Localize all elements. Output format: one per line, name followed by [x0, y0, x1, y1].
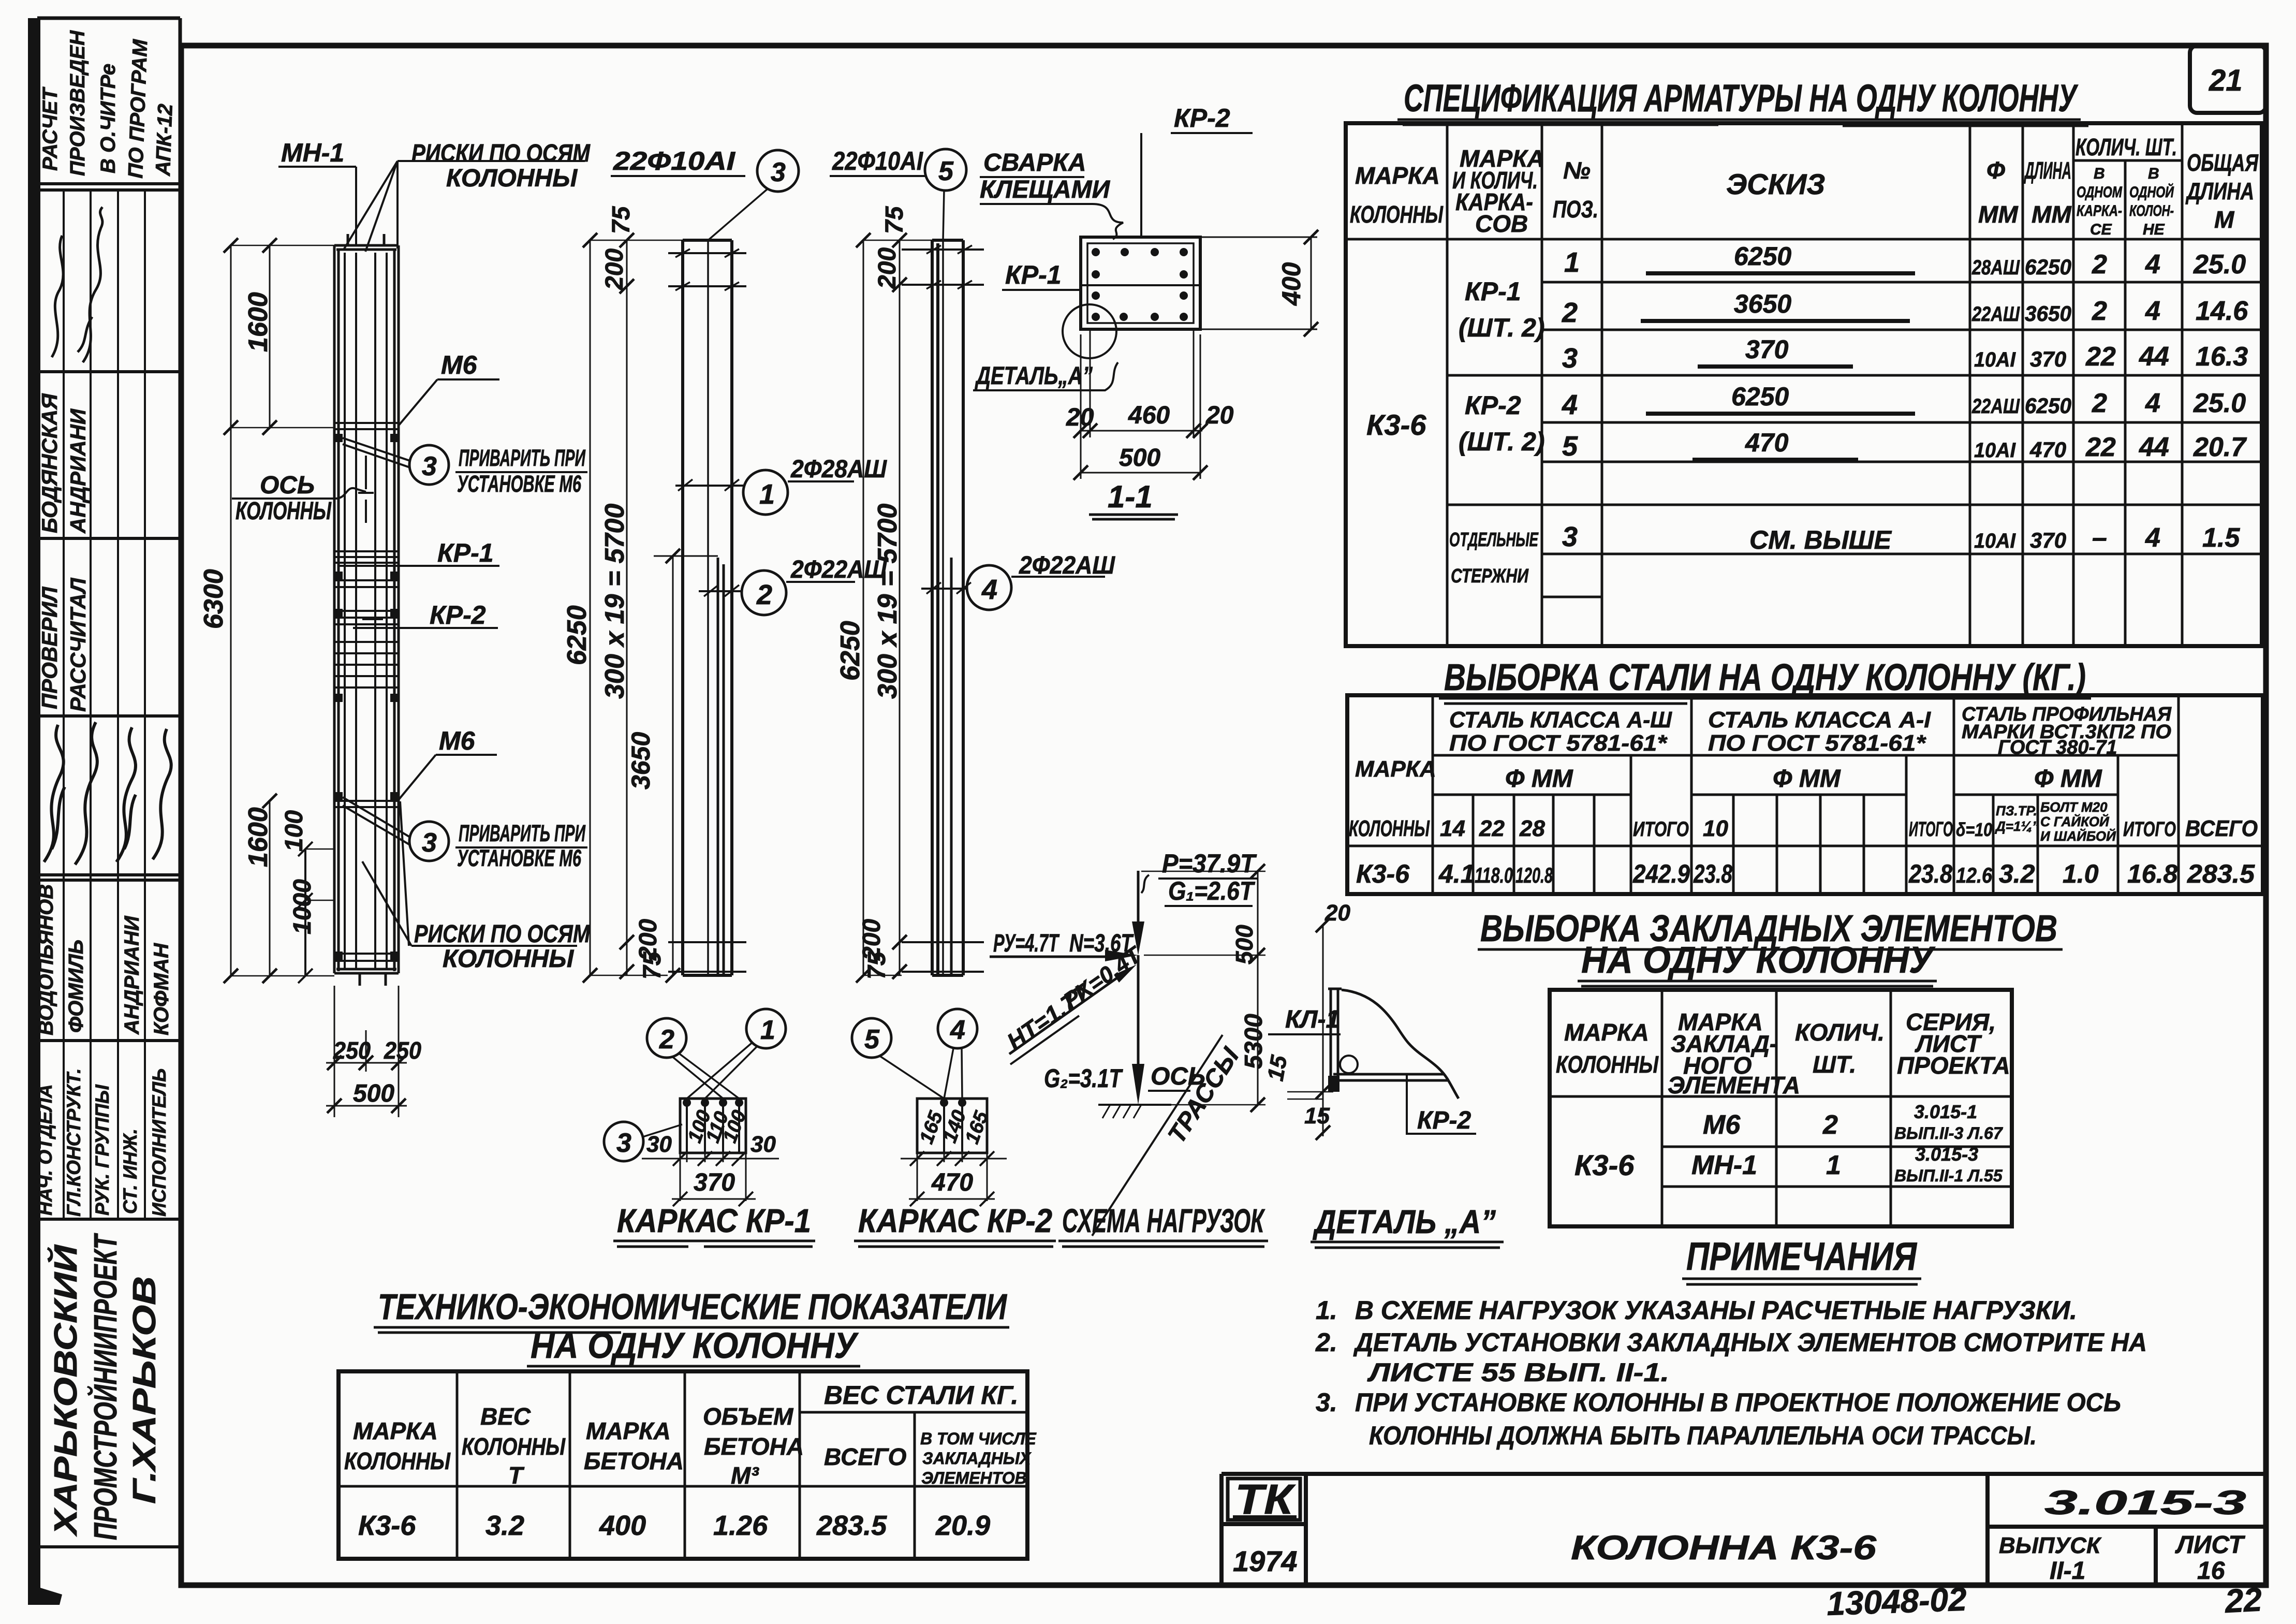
steel table grid	[1347, 695, 2263, 894]
svg-text:ДЕТАЛЬ УСТАНОВКИ ЗАКЛАДНЫХ ЭЛЕ: ДЕТАЛЬ УСТАНОВКИ ЗАКЛАДНЫХ ЭЛЕМЕНТОВ СМО…	[1353, 1328, 2147, 1357]
svg-text:283.5: 283.5	[2187, 859, 2255, 888]
kr1 2ф22 inner bars	[718, 558, 724, 975]
svg-text:КОЛОННЫ ДОЛЖНА БЫТЬ ПАРАЛЛЕЛЬН: КОЛОННЫ ДОЛЖНА БЫТЬ ПАРАЛЛЕЛЬНА ОСИ ТРАС…	[1369, 1421, 2037, 1450]
Ру N labels with horizontal arrow	[990, 930, 1138, 961]
section title 1-1	[1089, 479, 1178, 519]
kr2 frame bars	[932, 240, 963, 975]
svg-text:РУ=4.7Т: РУ=4.7Т	[993, 930, 1059, 957]
svg-text:РУК. ГРУППЫ: РУК. ГРУППЫ	[92, 1084, 113, 1216]
svg-text:3.2: 3.2	[1999, 859, 2035, 888]
rotated: проверил рассчитал	[37, 577, 90, 712]
svg-text:4: 4	[1562, 389, 1578, 420]
rotated names row	[35, 884, 173, 1035]
svg-text:1-1: 1-1	[1108, 479, 1153, 514]
dim line 1600 bottom	[262, 794, 277, 983]
svg-text:22Ф10АI: 22Ф10АI	[832, 147, 923, 175]
svg-text:СЕ: СЕ	[2090, 221, 2112, 238]
shelf double line	[1333, 1074, 1448, 1080]
svg-text:РИСКИ ПО ОСЯМ: РИСКИ ПО ОСЯМ	[411, 140, 591, 167]
svg-text:СТЕРЖНИ: СТЕРЖНИ	[1451, 565, 1529, 587]
svg-text:ОСЬ: ОСЬ	[260, 472, 315, 499]
pos circles 2 1 3 for kr1 plan	[604, 1009, 786, 1161]
svg-text:ПРОВЕРИЛ: ПРОВЕРИЛ	[37, 587, 62, 709]
svg-text:ПРОЕКТА: ПРОЕКТА	[1897, 1052, 2010, 1079]
svg-text:ГОСТ 380-71: ГОСТ 380-71	[1998, 737, 2117, 758]
svg-text:ЭЛЕМЕНТА: ЭЛЕМЕНТА	[1668, 1072, 1800, 1099]
svg-text:2: 2	[1822, 1110, 1838, 1140]
svg-text:КАРКАС КР-2: КАРКАС КР-2	[858, 1202, 1052, 1239]
page number box	[2190, 46, 2266, 113]
svg-text:20.9: 20.9	[935, 1510, 990, 1541]
svg-text:М³: М³	[731, 1462, 759, 1489]
console curved outline	[1342, 990, 1459, 1099]
rotated institute name	[47, 1233, 163, 1540]
svg-text:ВОДОПЬЯНОВ: ВОДОПЬЯНОВ	[35, 884, 57, 1035]
svg-text:ПРОМСТРОЙНИИПРОЕКТ: ПРОМСТРОЙНИИПРОЕКТ	[87, 1233, 124, 1540]
svg-text:4: 4	[2145, 523, 2160, 553]
svg-text:1.: 1.	[1316, 1296, 1337, 1325]
svg-text:II-1: II-1	[2050, 1557, 2085, 1585]
dim ext lines	[1287, 1092, 1333, 1099]
svg-text:13048-02: 13048-02	[1826, 1581, 1967, 1622]
svg-text:4: 4	[2145, 296, 2160, 326]
svg-text:28АШ: 28АШ	[1971, 256, 2020, 279]
svg-text:ТЕХНИКО-ЭКОНОМИЧЕСКИЕ ПОКАЗАТЕ: ТЕХНИКО-ЭКОНОМИЧЕСКИЕ ПОКАЗАТЕЛИ	[378, 1286, 1007, 1327]
svg-text:6250: 6250	[2025, 255, 2071, 279]
bolt circle	[1340, 1056, 1358, 1073]
label Кр-1	[340, 538, 499, 567]
svg-text:РАСЧЕТ: РАСЧЕТ	[39, 86, 62, 171]
svg-text:ДЛИНА: ДЛИНА	[2024, 157, 2071, 184]
signature scribbles top	[52, 207, 102, 362]
longitudinal rebars	[345, 253, 387, 969]
svg-text:ДЕТАЛЬ „А”: ДЕТАЛЬ „А”	[1313, 1203, 1496, 1240]
pos circle 2 with label 2ф22AIII	[699, 556, 887, 615]
svg-text:БОДЯНСКАЯ: БОДЯНСКАЯ	[37, 393, 62, 533]
svg-text:ИТОГО: ИТОГО	[1909, 818, 1953, 841]
svg-text:ХАРЬКОВСКИЙ: ХАРЬКОВСКИЙ	[47, 1244, 84, 1537]
label Кр-2 with leader	[1407, 1074, 1476, 1134]
svg-text:КОЛОННЫ: КОЛОННЫ	[446, 165, 578, 192]
detail title	[1311, 1203, 1504, 1248]
TECH TABLE	[338, 1286, 1037, 1559]
svg-text:30: 30	[750, 1132, 776, 1157]
embed table title	[1478, 908, 2063, 986]
svg-text:4: 4	[2145, 250, 2160, 280]
svg-text:250: 250	[384, 1037, 421, 1064]
svg-text:В О.ЧИТРе: В О.ЧИТРе	[97, 64, 120, 173]
svg-text:ВЕС: ВЕС	[480, 1403, 531, 1430]
section square	[1081, 237, 1200, 329]
svg-text:ВЫПУСК: ВЫПУСК	[1999, 1533, 2102, 1558]
svg-text:УСТАНОВКЕ М6: УСТАНОВКЕ М6	[457, 471, 582, 497]
svg-text:ММ: ММ	[1978, 201, 2019, 228]
svg-text:2: 2	[756, 579, 772, 610]
EMBED TABLE	[1478, 908, 2063, 1226]
svg-text:М6: М6	[439, 726, 476, 755]
embed header texts	[1556, 1008, 2010, 1099]
schema dims 500 5300	[1141, 864, 1265, 1112]
spec pos numbers	[1562, 247, 1580, 552]
svg-text:242.9: 242.9	[1632, 859, 1690, 888]
schema title	[1058, 1202, 1268, 1247]
pos circle 1 with label 2ф28AIII	[675, 456, 887, 515]
svg-text:СОВ: СОВ	[1475, 210, 1528, 237]
svg-text:КОФМАН: КОФМАН	[150, 943, 173, 1035]
STAMP-STRIP	[35, 18, 180, 1585]
svg-text:1.0: 1.0	[2063, 859, 2099, 888]
spec header texts	[1350, 134, 2259, 238]
svg-text:УСТАНОВКЕ М6: УСТАНОВКЕ М6	[457, 845, 582, 871]
svg-text:ОБЩАЯ: ОБЩАЯ	[2187, 149, 2259, 176]
svg-text:300 х 19 = 5700: 300 х 19 = 5700	[873, 504, 903, 699]
svg-text:ВЫП.II-1 Л.55: ВЫП.II-1 Л.55	[1894, 1166, 2003, 1185]
spec total col	[2193, 250, 2248, 553]
svg-text:300 х 19 = 5700: 300 х 19 = 5700	[600, 504, 630, 699]
svg-text:200: 200	[874, 247, 901, 289]
svg-text:ВЫБОРКА СТАЛИ НА ОДНУ КОЛО: ВЫБОРКА СТАЛИ НА ОДНУ КОЛОННУ (КГ.)	[1444, 657, 2086, 698]
rotated: бодянская андриани	[37, 393, 90, 534]
label 22ф10AI with pos circle 5	[830, 147, 966, 975]
svg-text:5: 5	[864, 1025, 880, 1055]
tech data row	[358, 1510, 990, 1541]
svg-text:КАРКАС КР-1: КАРКАС КР-1	[617, 1202, 811, 1239]
svg-text:СМ. ВЫШЕ: СМ. ВЫШЕ	[1749, 525, 1892, 554]
svg-text:3: 3	[616, 1128, 631, 1158]
svg-text:2: 2	[2092, 388, 2107, 418]
svg-text:250: 250	[333, 1037, 371, 1064]
svg-text:22АШ: 22АШ	[1971, 395, 2020, 418]
spec qty karkas col	[2085, 250, 2116, 553]
svg-text:ОБЪЕМ: ОБЪЕМ	[703, 1403, 794, 1430]
kr1 leader through section	[1002, 260, 1200, 290]
svg-text:К3-6: К3-6	[1356, 859, 1410, 888]
svg-text:44: 44	[2139, 432, 2169, 462]
vertical dim line 20/15	[1316, 918, 1330, 1140]
dim 400	[1200, 230, 1318, 336]
svg-text:(ШТ. 2): (ШТ. 2)	[1459, 427, 1544, 456]
svg-text:6250: 6250	[1731, 382, 1789, 411]
embed corner squares	[334, 434, 399, 960]
svg-text:КР-2: КР-2	[1174, 104, 1230, 133]
svg-text:ЭЛЕМЕНТОВ: ЭЛЕМЕНТОВ	[921, 1469, 1027, 1487]
svg-text:3650: 3650	[1734, 289, 1791, 318]
svg-text:СХЕМА НАГРУЗОК: СХЕМА НАГРУЗОК	[1062, 1202, 1265, 1239]
svg-text:КОЛИЧ.: КОЛИЧ.	[1795, 1019, 1885, 1046]
dim 300x19=5700 col3	[892, 233, 907, 979]
svg-text:75: 75	[639, 951, 666, 979]
STEEL TABLE	[1347, 657, 2263, 894]
svg-text:20: 20	[1324, 900, 1350, 926]
svg-text:1.5: 1.5	[2202, 523, 2240, 553]
svg-text:ИТОГО: ИТОГО	[2123, 818, 2176, 841]
svg-text:КР-1: КР-1	[437, 538, 494, 567]
dim line 1600 top	[262, 238, 277, 435]
svg-text:НА ОДНУ КОЛОННУ: НА ОДНУ КОЛОННУ	[1581, 940, 1936, 981]
svg-text:2Ф22АШ: 2Ф22АШ	[1019, 552, 1115, 579]
axis of road diagonal	[1092, 1035, 1245, 1236]
svg-text:21: 21	[2209, 64, 2243, 97]
svg-text:КР-1: КР-1	[1465, 277, 1521, 306]
DETAIL A	[1263, 900, 1504, 1248]
svg-text:30: 30	[646, 1132, 672, 1157]
svg-text:ПРИВАРИТЬ ПРИ: ПРИВАРИТЬ ПРИ	[459, 445, 586, 471]
svg-text:283.5: 283.5	[816, 1510, 887, 1541]
svg-text:1: 1	[759, 479, 775, 510]
svg-text:3: 3	[771, 157, 786, 187]
steel data row	[1356, 859, 2255, 888]
handwritten page marks	[1826, 1581, 2263, 1622]
svg-text:370: 370	[1745, 335, 1789, 364]
svg-text:ВЕС СТАЛИ КГ.: ВЕС СТАЛИ КГ.	[824, 1381, 1018, 1410]
svg-text:БЕТОНА: БЕТОНА	[584, 1447, 684, 1474]
tech header texts	[344, 1381, 1037, 1489]
svg-text:2: 2	[1562, 297, 1578, 328]
svg-text:10: 10	[1703, 816, 1728, 841]
svg-text:ОДНОЙ: ОДНОЙ	[2129, 183, 2174, 201]
NOTES	[1315, 1235, 2147, 1450]
dims 20 460 20 500	[1073, 329, 1208, 480]
rotated label: расчет произведен	[39, 30, 177, 179]
label МН-1	[278, 138, 356, 245]
label риски по осям колонны (top)	[344, 140, 591, 252]
svg-text:К3-6: К3-6	[1366, 408, 1426, 441]
svg-text:КОЛОННЫ: КОЛОННЫ	[1556, 1051, 1659, 1078]
svg-text:ПРОИЗВЕДЕН: ПРОИЗВЕДЕН	[66, 30, 89, 176]
svg-text:4: 4	[950, 1015, 965, 1045]
svg-text:(ШТ. 2): (ШТ. 2)	[1459, 313, 1544, 342]
svg-text:КОЛИЧ. ШТ.: КОЛИЧ. ШТ.	[2076, 134, 2177, 160]
svg-text:5: 5	[938, 156, 954, 186]
svg-text:370: 370	[2030, 347, 2066, 371]
spec length col	[2025, 255, 2071, 552]
svg-text:6250: 6250	[1734, 242, 1791, 271]
svg-text:120.8: 120.8	[1515, 863, 1553, 887]
svg-text:5300: 5300	[1240, 1014, 1268, 1069]
svg-text:16: 16	[2197, 1557, 2225, 1585]
svg-text:460: 460	[1128, 402, 1170, 429]
console plate	[1328, 989, 1342, 1092]
kr1 welded cross bars top	[668, 249, 746, 290]
svg-text:С ГАЙКОЙ: С ГАЙКОЙ	[2040, 814, 2110, 829]
svg-text:10АI: 10АI	[1974, 530, 2016, 552]
svg-text:370: 370	[2030, 528, 2066, 552]
kr2 plan rect	[917, 1099, 987, 1153]
svg-text:500: 500	[1231, 925, 1258, 964]
svg-text:КОЛОН-: КОЛОН-	[2129, 202, 2174, 220]
svg-text:КОЛОННЫ: КОЛОННЫ	[1349, 816, 1430, 841]
kr1 plan title	[613, 1202, 815, 1247]
svg-text:КОЛОННЫ: КОЛОННЫ	[236, 498, 332, 525]
svg-text:4: 4	[981, 574, 997, 605]
spec diameter col	[1971, 256, 2020, 552]
svg-text:3: 3	[1562, 343, 1578, 374]
svg-text:КР-2: КР-2	[1465, 391, 1521, 420]
svg-text:2: 2	[2092, 296, 2107, 326]
dim line 6300	[224, 238, 334, 983]
svg-text:ОТДЕЛЬНЫЕ: ОТДЕЛЬНЫЕ	[1449, 529, 1539, 551]
svg-text:3.015-3: 3.015-3	[1915, 1144, 1978, 1165]
KARKAS PLANS	[604, 1009, 1056, 1247]
stamp inner verticals	[64, 190, 145, 1219]
kr2 2ф22 inner bar	[950, 558, 953, 975]
svg-text:ЭСКИЗ: ЭСКИЗ	[1726, 168, 1825, 200]
svg-text:4: 4	[2145, 388, 2160, 418]
svg-text:470: 470	[931, 1169, 973, 1196]
label риски по осям колонны (bottom)	[362, 801, 591, 973]
section rebar dots	[1092, 248, 1188, 321]
svg-text:В: В	[2094, 165, 2105, 182]
kr1 frame bars	[683, 240, 732, 975]
svg-text:М: М	[2214, 206, 2235, 233]
svg-text:10АI: 10АI	[1974, 348, 2016, 371]
svg-text:14.6: 14.6	[2196, 296, 2248, 326]
embed table grid	[1550, 990, 2012, 1226]
stamp section dividers	[37, 184, 180, 1547]
svg-text:СВАРКА: СВАРКА	[983, 149, 1086, 177]
dim 100 / 1000	[298, 842, 334, 983]
svg-text:44: 44	[2139, 342, 2169, 372]
rotated posts row	[35, 1068, 170, 1217]
svg-text:15: 15	[1304, 1103, 1330, 1129]
svg-text:370: 370	[694, 1169, 735, 1196]
svg-text:G₂=3.1Т: G₂=3.1Т	[1044, 1064, 1124, 1093]
label ось колонны	[232, 472, 366, 525]
tech table grid	[338, 1371, 1027, 1559]
svg-text:22: 22	[1479, 816, 1505, 841]
svg-text:–: –	[2092, 523, 2107, 553]
svg-text:G₁=2.6Т: G₁=2.6Т	[1168, 876, 1256, 905]
kr1 plan dims	[642, 1151, 779, 1206]
steel table title	[1439, 657, 2091, 704]
svg-text:75: 75	[863, 951, 891, 979]
svg-text:75: 75	[881, 206, 908, 234]
svg-text:ВСЕГО: ВСЕГО	[2185, 816, 2258, 841]
risk marks top/bottom	[348, 234, 386, 986]
svg-text:6250: 6250	[2025, 393, 2071, 418]
svg-text:МАРКА: МАРКА	[353, 1417, 438, 1444]
svg-text:12.6: 12.6	[1956, 863, 1993, 887]
notes title	[1682, 1235, 1921, 1284]
vertical load arrow	[1132, 871, 1144, 955]
ground line with hatching	[1098, 1105, 1171, 1118]
svg-text:100: 100	[281, 810, 308, 852]
svg-text:ВЫП.II-3 Л.67: ВЫП.II-3 Л.67	[1894, 1124, 2004, 1143]
svg-text:1: 1	[1564, 247, 1580, 278]
svg-text:КР-2: КР-2	[1417, 1107, 1471, 1134]
base black square	[1328, 1076, 1340, 1092]
dim 300x19=5700 col2	[620, 233, 634, 979]
svg-text:РАССЧИТАЛ: РАССЧИТАЛ	[66, 577, 90, 712]
svg-text:БЕТОНА: БЕТОНА	[704, 1433, 804, 1460]
svg-text:3: 3	[1562, 521, 1578, 552]
scan edge bar	[28, 18, 40, 1605]
svg-text:15: 15	[1263, 1054, 1292, 1083]
load P G1 labels	[1141, 849, 1258, 906]
svg-text:К3-6: К3-6	[1574, 1149, 1635, 1181]
svg-text:КАРКА-: КАРКА-	[2077, 202, 2122, 220]
column axis dashes	[358, 456, 374, 523]
label Кр-2 top	[1141, 104, 1253, 236]
stamp outer box	[37, 18, 180, 1585]
COLUMN3	[830, 147, 1115, 983]
diagonal load Нт Рх	[1002, 941, 1147, 1064]
COLUMN2	[562, 147, 887, 983]
svg-text:14: 14	[1440, 816, 1465, 841]
svg-text:ЛИСТЕ 55 ВЫП. II-1.: ЛИСТЕ 55 ВЫП. II-1.	[1367, 1358, 1669, 1387]
svg-text:Т: Т	[508, 1462, 525, 1489]
svg-text:НЕ: НЕ	[2143, 221, 2165, 238]
TK logo	[1228, 1476, 1300, 1523]
detail A circle on corner	[973, 304, 1118, 390]
svg-text:В ТОМ ЧИСЛЕ: В ТОМ ЧИСЛЕ	[920, 1429, 1037, 1448]
svg-text:И ШАЙБОЙ: И ШАЙБОЙ	[2040, 828, 2116, 844]
svg-text:КОЛОННЫ: КОЛОННЫ	[344, 1447, 451, 1474]
svg-text:ВСЕГО: ВСЕГО	[824, 1443, 907, 1470]
svg-text:МН-1: МН-1	[1691, 1150, 1757, 1180]
svg-text:3: 3	[422, 451, 437, 481]
label Кл-1	[1268, 1006, 1341, 1034]
svg-text:Ф ММ: Ф ММ	[1773, 765, 1841, 793]
svg-text:РИСКИ ПО ОСЯМ: РИСКИ ПО ОСЯМ	[414, 920, 591, 948]
svg-text:МАРКА: МАРКА	[1355, 756, 1436, 782]
svg-text:400: 400	[599, 1510, 646, 1541]
kr2 plan dims	[901, 1151, 1007, 1206]
kr2 cross bars bottom	[902, 942, 984, 972]
svg-text:НА ОДНУ КОЛОННУ: НА ОДНУ КОЛОННУ	[531, 1325, 859, 1366]
label М6 (lower)	[399, 726, 497, 800]
svg-text:3.: 3.	[1316, 1388, 1337, 1417]
svg-text:2.: 2.	[1315, 1328, 1337, 1357]
svg-text:1600: 1600	[243, 292, 273, 352]
svg-text:ЛИСТ: ЛИСТ	[2175, 1531, 2245, 1559]
svg-text:КЛЕЩАМИ: КЛЕЩАМИ	[980, 176, 1111, 203]
svg-text:АНДРИАНИ: АНДРИАНИ	[66, 408, 90, 534]
svg-text:1974: 1974	[1233, 1545, 1298, 1577]
svg-text:3650: 3650	[626, 732, 655, 789]
svg-text:2Ф28АШ: 2Ф28АШ	[790, 456, 887, 483]
pos circle 3 lower	[343, 797, 587, 871]
svg-text:Ф ММ: Ф ММ	[2034, 765, 2102, 793]
svg-text:КР-2: КР-2	[430, 601, 486, 630]
svg-text:1: 1	[1826, 1150, 1841, 1180]
spec table title	[1397, 77, 2088, 126]
svg-text:6250: 6250	[562, 605, 592, 665]
svg-text:КОЛОННЫ: КОЛОННЫ	[443, 945, 574, 973]
svg-text:3650: 3650	[2025, 301, 2071, 326]
svg-text:20.7: 20.7	[2193, 432, 2247, 462]
dim 6250 col2	[583, 233, 683, 983]
svg-text:1: 1	[760, 1015, 775, 1045]
svg-text:ПОЗ.: ПОЗ.	[1553, 196, 1598, 223]
svg-text:ПРИМЕЧАНИЯ: ПРИМЕЧАНИЯ	[1686, 1235, 1917, 1279]
svg-text:№: №	[1563, 157, 1591, 184]
svg-text:1000: 1000	[289, 879, 316, 934]
svg-text:16.8: 16.8	[2127, 859, 2178, 888]
svg-text:Г.ХАРЬКОВ: Г.ХАРЬКОВ	[127, 1276, 163, 1504]
svg-text:118.0: 118.0	[1475, 863, 1513, 887]
label 22ф10AI with pos circle 3	[611, 147, 799, 975]
svg-text:Ф ММ: Ф ММ	[1505, 765, 1573, 793]
svg-text:6300: 6300	[199, 569, 229, 629]
bottom width dims 250 250 500	[326, 986, 407, 1117]
svg-text:СПЕЦИФИКАЦИЯ АРМАТУРЫ НА ОД: СПЕЦИФИКАЦИЯ АРМАТУРЫ НА ОДНУ КОЛОННУ	[1404, 77, 2078, 120]
dim 3650 col2	[654, 549, 718, 983]
TITLE BLOCK	[1221, 1474, 2266, 1622]
column axis line with bottom arrow	[1132, 955, 1144, 1105]
svg-text:ИСПОЛНИТЕЛЬ: ИСПОЛНИТЕЛЬ	[149, 1069, 170, 1217]
kr2 cross bars top	[902, 245, 984, 289]
